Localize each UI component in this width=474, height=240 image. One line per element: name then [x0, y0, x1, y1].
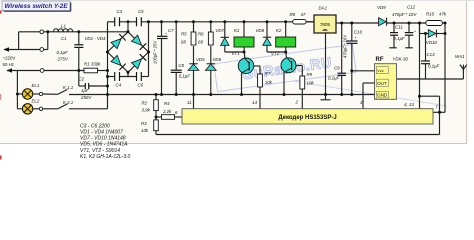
svg-text:VT1, VT2 - S9014: VT1, VT2 - S9014: [80, 148, 120, 154]
svg-text:0,1μF: 0,1μF: [394, 36, 406, 41]
svg-text:R3: R3: [141, 121, 147, 126]
svg-text:C7: C7: [168, 28, 174, 33]
svg-text:RF: RF: [376, 57, 384, 63]
svg-text:C13: C13: [427, 52, 436, 57]
svg-text:R4: R4: [164, 101, 170, 106]
svg-text:OUT: OUT: [377, 81, 387, 86]
svg-text:VT2: VT2: [271, 51, 280, 56]
svg-text:~220V: ~220V: [3, 55, 16, 60]
svg-text:VD7 - VD10 1N4148: VD7 - VD10 1N4148: [80, 136, 126, 142]
svg-text:+: +: [165, 32, 167, 36]
svg-text:C12: C12: [407, 5, 416, 10]
svg-text:C6: C6: [138, 82, 144, 87]
svg-text:4, 13: 4, 13: [404, 102, 414, 107]
svg-text:K 1.1: K 1.1: [63, 85, 74, 90]
svg-text:GND: GND: [377, 93, 387, 98]
svg-text:275V: 275V: [57, 57, 69, 62]
svg-text:2: 2: [295, 100, 299, 105]
svg-text:C9: C9: [334, 65, 340, 70]
svg-text:0,1μF: 0,1μF: [428, 64, 440, 69]
svg-text:C2: C2: [79, 76, 85, 81]
svg-text:14: 14: [252, 100, 257, 105]
svg-text:Декодер HS153SP-J: Декодер HS153SP-J: [278, 115, 336, 121]
svg-text:470μF * 16V: 470μF * 16V: [342, 34, 347, 58]
svg-text:C4: C4: [116, 82, 122, 87]
svg-text:Wireless switch Y-2E: Wireless switch Y-2E: [4, 3, 68, 10]
svg-text:VT1: VT1: [232, 51, 241, 56]
svg-text:C5: C5: [138, 9, 144, 14]
svg-text:100μF * 25V: 100μF * 25V: [153, 40, 158, 64]
svg-text:K2: K2: [276, 28, 282, 33]
svg-text:DA1: DA1: [319, 6, 328, 11]
svg-text:10k: 10k: [307, 81, 315, 86]
svg-text:R10: R10: [426, 12, 435, 17]
svg-text:VD1 - VD4: VD1 - VD4: [85, 36, 107, 41]
svg-text:K1, K2 GH-1A-12L-3.0: K1, K2 GH-1A-12L-3.0: [80, 154, 131, 160]
svg-text:R9: R9: [307, 72, 313, 77]
svg-text:7805: 7805: [320, 22, 331, 27]
svg-text:47: 47: [301, 12, 306, 17]
svg-text:250V: 250V: [80, 95, 92, 100]
svg-text:+: +: [414, 29, 416, 33]
svg-text:C11: C11: [395, 25, 403, 30]
svg-text:VD6: VD6: [213, 57, 222, 62]
svg-text:YDK-30: YDK-30: [393, 57, 409, 62]
svg-text:R5: R5: [181, 32, 187, 37]
svg-text:2,2k: 2,2k: [162, 109, 172, 114]
svg-text:VD10: VD10: [426, 40, 438, 45]
svg-text:R7: R7: [265, 71, 271, 76]
svg-text:EL2: EL2: [32, 98, 40, 103]
svg-text:11: 11: [187, 100, 192, 105]
svg-text:R1 330k: R1 330k: [84, 62, 101, 67]
svg-text:0,1μF: 0,1μF: [328, 75, 340, 80]
svg-text:VD5, VD6 - 1N4741A: VD5, VD6 - 1N4741A: [80, 142, 128, 148]
svg-text:VD1 - VD4 1N4007: VD1 - VD4 1N4007: [80, 130, 123, 136]
svg-text:10k: 10k: [141, 128, 149, 133]
svg-text:K1: K1: [234, 28, 240, 33]
svg-text:68: 68: [198, 40, 203, 45]
svg-text:EL1: EL1: [32, 83, 40, 88]
svg-text:3,9k: 3,9k: [142, 107, 151, 112]
svg-text:68: 68: [181, 40, 186, 45]
svg-text:R6: R6: [198, 32, 204, 37]
svg-text:470μF * 10V: 470μF * 10V: [392, 12, 417, 17]
svg-text:VD9: VD9: [377, 5, 386, 10]
svg-text:0,1μF: 0,1μF: [57, 50, 69, 55]
svg-text:Vcc: Vcc: [377, 69, 383, 73]
svg-text:C3: C3: [117, 9, 123, 14]
svg-text:50 Hz: 50 Hz: [3, 62, 14, 67]
svg-text:+: +: [355, 36, 357, 40]
svg-text:R2: R2: [142, 101, 148, 106]
svg-text:VD5: VD5: [196, 57, 205, 62]
svg-text:WA1: WA1: [455, 54, 465, 59]
svg-text:VD8: VD8: [256, 28, 265, 33]
svg-text:C10: C10: [354, 30, 363, 35]
svg-text:C8: C8: [178, 63, 184, 68]
svg-text:0,1μF: 0,1μF: [179, 73, 191, 78]
svg-text:10k: 10k: [265, 80, 273, 85]
svg-text:VD7: VD7: [215, 28, 224, 33]
svg-text:L1: L1: [61, 23, 66, 28]
svg-text:C1: C1: [61, 36, 67, 41]
svg-text:K 2.1: K 2.1: [63, 100, 74, 105]
svg-text:47k: 47k: [439, 12, 447, 17]
svg-text:C3 - C6 2200: C3 - C6 2200: [80, 123, 110, 129]
svg-text:1μF: 1μF: [81, 88, 89, 93]
svg-text:R8: R8: [290, 12, 296, 17]
